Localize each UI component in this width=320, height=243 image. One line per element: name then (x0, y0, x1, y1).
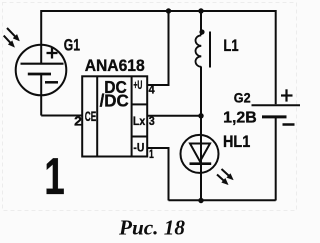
svg-text:1: 1 (149, 147, 154, 161)
svg-text:1,2В: 1,2В (223, 110, 257, 127)
svg-text:1: 1 (44, 148, 64, 206)
svg-text:/DC: /DC (100, 90, 130, 110)
svg-text:ANA618: ANA618 (85, 56, 145, 75)
svg-text:4: 4 (149, 83, 155, 97)
svg-text:L1: L1 (223, 37, 238, 55)
svg-text:3: 3 (149, 114, 155, 128)
svg-text:Lx: Lx (133, 114, 146, 128)
svg-text:+U: +U (133, 78, 142, 92)
svg-text:2: 2 (74, 115, 82, 129)
svg-text:HL1: HL1 (223, 133, 250, 151)
svg-text:CE: CE (85, 108, 97, 124)
svg-text:G1: G1 (64, 36, 80, 54)
svg-text:-U: -U (133, 141, 144, 155)
svg-text:G2: G2 (234, 90, 251, 106)
svg-text:Рис. 18: Рис. 18 (118, 216, 186, 240)
